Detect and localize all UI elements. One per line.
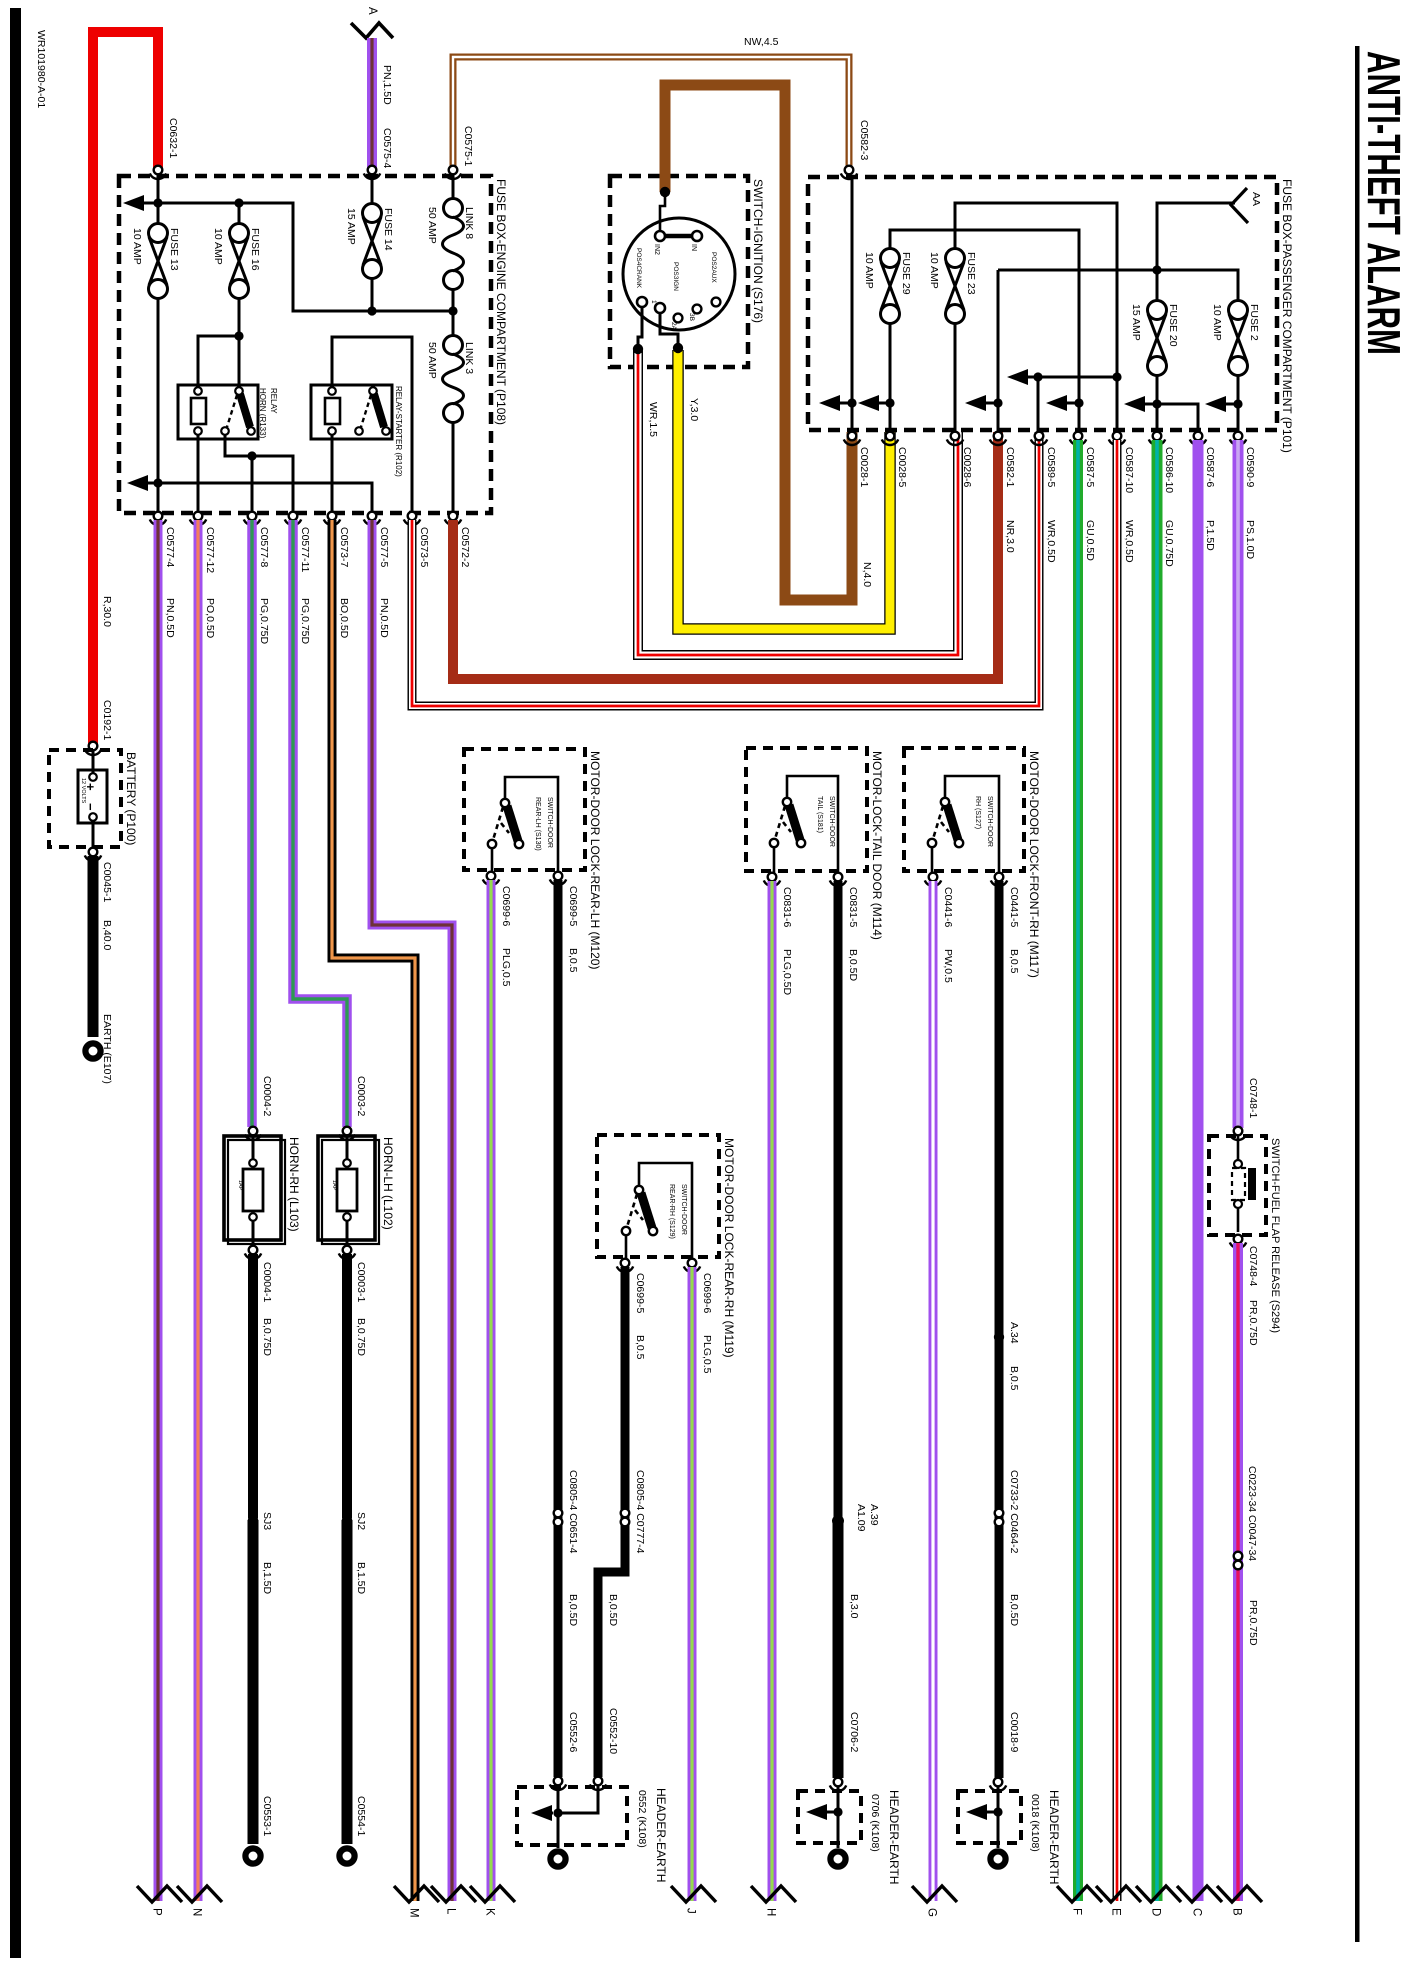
svg-text:C0572-2: C0572-2 [459,527,471,567]
svg-text:POS4CRANK: POS4CRANK [635,248,642,289]
fuse F16 10AMP [230,224,249,299]
wire B,0.75D HORN-RH (L103) [248,1254,258,1518]
svg-text:B,0.75D: B,0.75D [355,1318,367,1356]
svg-text:10 AMP: 10 AMP [863,252,875,289]
P101 row377 bus [1028,377,1117,432]
svg-text:GU,0.75D: GU,0.75D [1163,520,1175,567]
svg-text:C0831-6: C0831-6 [781,887,793,927]
wire PS,1.0D C0590-9 to fuel flap switch [1233,440,1244,1128]
connector C0577-8 [244,512,260,525]
junction fuse16 bottom [234,331,243,340]
M114 internal wire [787,776,838,873]
svg-text:C0003-2: C0003-2 [355,1076,367,1116]
junction 0552 [553,1808,562,1817]
connector C0573-7 [324,512,340,525]
wire PLG,0.5D M114 to H [768,881,777,1901]
svg-text:3B: 3B [688,313,695,321]
svg-text:0018 (K108): 0018 (K108) [1029,1794,1041,1852]
connector C0706-2 [830,1778,846,1791]
svg-text:C0223-34 C0047-34: C0223-34 C0047-34 [1246,1466,1258,1561]
horn HORN-RH (L103) element [243,1169,263,1211]
wire PN,0.5D C0577-4 to P [154,520,163,1901]
svg-text:C0577-4: C0577-4 [164,527,176,567]
junction c [993,398,1002,407]
svg-text:HORN-LH (L102): HORN-LH (L102) [381,1137,395,1230]
connector C0587-6 [1190,432,1206,445]
svg-text:12 VOLTS: 12 VOLTS [80,778,86,804]
junction 0018 [993,1807,1002,1816]
connector C0003-2 [339,1127,355,1140]
svg-text:C0699-5: C0699-5 [634,1273,646,1313]
connector C0003-1 [339,1246,355,1259]
fusible link LINK 3 50AMP [443,336,464,423]
connectors C0733-2 C0464-2 [995,1509,1004,1527]
junction fuse16 feed [234,198,243,207]
svg-text:FUSE 13: FUSE 13 [168,228,180,271]
svg-text:MOTOR-DOOR LOCK-REAR-RH (M119): MOTOR-DOOR LOCK-REAR-RH (M119) [722,1138,736,1358]
svg-text:C0706-2: C0706-2 [848,1712,860,1752]
svg-text:C0699-5: C0699-5 [567,886,579,926]
svg-text:M: M [408,1908,420,1918]
wire PG,0.75D C0577-8 to horn RH [247,520,257,1127]
fuel flap switch box S294 [1209,1136,1266,1235]
connectors C0223-34 C0047-34 [1234,1552,1243,1570]
connector C0573-5 [404,512,420,525]
wire B,1.5D HORN-RH (L103) [248,1520,259,1844]
svg-text:PN,0.5D: PN,0.5D [378,598,390,638]
svg-text:B,0.5D: B,0.5D [847,949,859,982]
svg-text:C0554-1: C0554-1 [355,1796,367,1836]
junction AA bus [1152,265,1161,274]
P101 arrow f [1205,396,1226,412]
svg-text:P: P [151,1908,163,1916]
svg-text:MOTOR-DOOR LOCK-FRONT-RH (M117: MOTOR-DOOR LOCK-FRONT-RH (M117) [1027,751,1041,978]
svg-text:H: H [765,1908,777,1916]
ignition switch body circle [623,218,735,330]
wire ignition pin1 to Y stub [660,313,678,347]
header earth 0552 arrow [531,1805,552,1821]
svg-text:FUSE 14: FUSE 14 [382,208,394,251]
wire PN,0.5D C0577-5 to L [372,520,452,1901]
connector G [912,1886,957,1902]
svg-text:POS2AUX: POS2AUX [710,252,717,283]
fusible link LINK 8 50AMP [443,199,464,290]
svg-text:C0003-1: C0003-1 [355,1262,367,1302]
svg-text:B,0.5: B,0.5 [1008,949,1020,974]
junction row377 a [1033,372,1042,381]
svg-text:POS3IGN: POS3IGN [672,262,679,291]
svg-text:FUSE BOX-PASSENGER COMPARTMENT: FUSE BOX-PASSENGER COMPARTMENT (P101) [1280,179,1294,453]
wire fuse16 vertical [238,203,241,336]
wire link8 vertical [452,174,455,311]
svg-text:C0553-1: C0553-1 [261,1796,273,1836]
svg-text:SJ2: SJ2 [355,1512,367,1530]
connector E [1096,1886,1141,1902]
svg-text:B,0.5D: B,0.5D [567,1594,579,1627]
header earth 0706 K108 box [798,1791,861,1843]
connector C0045-1 [85,848,101,861]
header earth 0018 K108 box [958,1791,1021,1843]
svg-text:50 AMP: 50 AMP [426,342,438,379]
svg-text:SWITCH-DOOR: SWITCH-DOOR [986,796,993,847]
svg-text:PR,0.75D: PR,0.75D [1247,1300,1259,1346]
svg-text:C0748-4: C0748-4 [1247,1246,1259,1286]
junction a [847,398,856,407]
svg-text:FUSE 29: FUSE 29 [900,252,912,295]
svg-text:C0587-10: C0587-10 [1123,447,1135,493]
svg-text:−: − [83,803,98,811]
svg-text:PLG,0.5: PLG,0.5 [500,948,512,987]
connectors C0805-4 C0777-4 [621,1509,630,1527]
wire fuse20 verticals [1156,375,1159,432]
svg-text:C0577-12: C0577-12 [204,527,216,573]
earth ring 0706 [830,1851,845,1866]
P101 bus row 270 [998,270,1238,432]
connector C0004-1 [245,1246,261,1259]
svg-text:1AP: 1AP [237,1180,243,1191]
P108 internal bus top [144,203,453,311]
svg-text:G: G [926,1908,938,1917]
M117 internal wire [945,776,999,873]
fuse box P108 [119,176,491,513]
svg-text:HEADER-EARTH: HEADER-EARTH [1047,1790,1061,1884]
wire PLG,0.5 M120 to K [487,880,496,1901]
horn HORN-LH (L102) element [337,1169,357,1211]
svg-text:C0632-1: C0632-1 [167,118,179,158]
svg-text:FUSE 2: FUSE 2 [1248,304,1260,341]
wire battery feed R,30.0 red [93,32,158,747]
earth ring 0018 [990,1851,1005,1866]
P101 arrow c [965,395,986,411]
svg-text:B,0.5D: B,0.5D [1008,1594,1020,1627]
wire fuse29 verticals [890,230,1079,432]
junction e [1152,399,1161,408]
connector L [431,1886,476,1902]
wire NR,3.0 C0572-2 to C0582-1 [453,432,998,679]
svg-text:REAR-RH (S129): REAR-RH (S129) [668,1184,675,1239]
svg-text:SWITCH-DOOR: SWITCH-DOOR [680,1184,687,1235]
connector K [470,1886,515,1902]
connector C0577-5 [364,512,380,525]
connector H [751,1886,796,1902]
svg-text:FUSE 16: FUSE 16 [249,228,261,271]
fuse F23 10AMP [946,249,965,324]
wire PN,1.5D from connector A [367,38,377,170]
svg-text:C0552-10: C0552-10 [607,1708,619,1754]
svg-text:PN,1.5D: PN,1.5D [381,65,393,105]
switch S127 door RH [928,798,963,847]
svg-text:E: E [1110,1908,1122,1916]
ignition pin 1 [655,303,665,313]
svg-text:P,1.5D: P,1.5D [1204,520,1216,551]
svg-text:PW,0.5: PW,0.5 [942,949,954,983]
P101 arrow d [1046,395,1067,411]
motor M114 box [746,748,867,871]
junction row377 b [1112,372,1121,381]
svg-text:C0575-1: C0575-1 [462,126,474,166]
wire ignition feed stub from brown [660,194,665,230]
wire WR,0.5D C0573-5 to C0589-5 [412,432,1039,706]
junction d [1074,398,1083,407]
svg-text:C0004-2: C0004-2 [261,1076,273,1116]
ignition pin 2A [674,314,683,323]
svg-text:SWITCH-IGNITION (S176): SWITCH-IGNITION (S176) [751,179,765,323]
junction b [885,398,894,407]
svg-text:WR101980-A-01: WR101980-A-01 [35,30,47,108]
svg-text:PR,0.75D: PR,0.75D [1247,1600,1259,1646]
svg-text:A: A [366,7,378,15]
wire fuse14 vertical [371,174,374,311]
svg-text:RELAY-STARTER (R102): RELAY-STARTER (R102) [394,386,403,477]
svg-text:FUSE 20: FUSE 20 [1167,304,1179,347]
svg-text:SWITCH-DOOR: SWITCH-DOOR [828,796,835,847]
svg-text:50 AMP: 50 AMP [426,207,438,244]
wire B,0.5 M119 to C0552-10 [598,1267,625,1777]
connector C0587-10 [1109,432,1125,445]
connector C0004-2 [245,1127,261,1140]
wire PR,0.75D fuel flap to B [1233,1243,1243,1901]
svg-text:B,40.0: B,40.0 [101,920,113,951]
wire B,0.5 M120 to C0552-6 [554,880,563,1777]
connector A chevron [351,23,393,38]
connector C0575-4 [364,166,380,179]
relay R133 coil [191,398,206,424]
page edge bar left [10,8,21,1958]
earth ring 0552 [550,1851,565,1866]
svg-text:PG,0.75D: PG,0.75D [258,598,270,645]
wire Y,3.0 yellow ignition to C0028-5 [678,350,890,629]
connector C0572-2 [445,512,461,525]
connector N [177,1886,222,1902]
junction bottom bus [153,478,162,487]
svg-text:MOTOR-DOOR LOCK-REAR-LH (M120): MOTOR-DOOR LOCK-REAR-LH (M120) [588,751,602,969]
connector C0590-9 [1230,432,1246,445]
header earth 0706 internal [837,1786,840,1848]
svg-text:ANTI-THEFT ALARM: ANTI-THEFT ALARM [1358,51,1406,355]
svg-text:F: F [1071,1908,1083,1915]
ring terminal C0553-1 [245,1848,260,1863]
ignition switch box S176 [610,176,748,367]
svg-text:C0590-9: C0590-9 [1244,447,1256,487]
connector C0699-5 M119 [617,1259,633,1272]
M119 internal wire [639,1163,692,1259]
P101 bus from AA [1157,203,1235,301]
svg-text:B,0.5: B,0.5 [1008,1366,1020,1391]
svg-text:A.39: A.39 [868,1504,880,1526]
svg-text:C0004-1: C0004-1 [261,1262,273,1302]
svg-text:IN: IN [690,244,697,251]
wire R102 coil feed from C0573-5 [332,337,412,512]
svg-text:C0028-1: C0028-1 [858,447,870,487]
svg-text:C0831-5: C0831-5 [847,887,859,927]
svg-text:SJ3: SJ3 [261,1512,273,1530]
connector C0028-1 [844,432,860,445]
connector C0699-5 M120 [550,872,566,885]
P108 bottom-left arrow [127,475,148,491]
fuel flap switch internals [1237,1136,1240,1232]
svg-text:PS,1.0D: PS,1.0D [1244,520,1256,560]
connector C0552-6 [550,1777,566,1790]
splice SJ2 [342,1515,352,1525]
svg-text:WR,0.5D: WR,0.5D [1123,520,1135,563]
ignition pin 3B [693,305,702,314]
connector C0441-6 [925,873,941,886]
svg-text:K: K [484,1908,496,1916]
svg-text:C0699-6: C0699-6 [701,1273,713,1313]
svg-text:BO,0.5D: BO,0.5D [338,598,350,639]
fuse F29 10AMP [881,249,900,324]
connector C0552-10 [590,1777,606,1790]
wire fuse2 verticals [1237,375,1240,432]
wire NW,4.5 brown/white [453,57,849,170]
junction red feed [153,198,162,207]
svg-text:SWITCH-FUEL FLAP RELEASE (S294: SWITCH-FUEL FLAP RELEASE (S294) [1269,1138,1281,1333]
connector C0586-10 [1149,432,1165,445]
connector D [1136,1886,1181,1902]
wire WR,1.5 ignition to C0028-6 [638,350,958,655]
svg-text:D: D [1150,1908,1162,1916]
svg-text:C0748-1: C0748-1 [1247,1078,1259,1118]
junction ignition yellow terminal [673,343,683,353]
svg-text:C0441-6: C0441-6 [942,887,954,927]
svg-text:C0573-5: C0573-5 [418,527,430,567]
svg-text:HEADER-EARTH: HEADER-EARTH [654,1788,668,1882]
svg-text:C0045-1: C0045-1 [101,862,113,902]
connector C0699-6 M119 [684,1259,700,1272]
svg-text:LINK 8: LINK 8 [463,207,475,239]
wire R133 coil bottom to C0577-12 [197,435,200,512]
svg-text:C0733-2 C0464-2: C0733-2 C0464-2 [1008,1470,1020,1554]
svg-text:GU,0.5D: GU,0.5D [1084,520,1096,561]
wire B,0.5D M114 upper [834,881,843,1521]
svg-text:C0577-8: C0577-8 [258,527,270,567]
svg-text:C0699-6: C0699-6 [500,886,512,926]
svg-text:B,3.0: B,3.0 [848,1594,860,1619]
svg-text:B: B [1231,1908,1243,1916]
connector C0028-5 [882,432,898,445]
svg-text:AA: AA [1250,192,1262,206]
relay R133 horn relay box [178,385,258,439]
svg-text:1AP: 1AP [331,1180,337,1191]
P101 arrow row377 [1007,369,1028,385]
motor M117 box [904,748,1024,871]
switch S181 tail door [770,798,805,847]
svg-text:C0573-7: C0573-7 [338,527,350,567]
svg-text:10 AMP: 10 AMP [212,228,224,265]
wire BO,0.5D C0573-7 to M [332,520,415,1901]
motor M119 box [597,1135,719,1257]
svg-text:LINK 3: LINK 3 [463,342,475,374]
svg-text:C0805-4 C0651-4: C0805-4 C0651-4 [567,1470,579,1554]
junction horn feed [247,451,256,460]
connector F [1057,1886,1102,1902]
svg-text:10 AMP: 10 AMP [131,228,143,265]
svg-text:B,0.5: B,0.5 [634,1335,646,1360]
svg-text:10 AMP: 10 AMP [1211,304,1223,341]
connector C0192-1 [85,742,101,755]
wire B,1.5D HORN-LH (L102) [342,1520,353,1844]
P108 top-left arrow [123,195,144,211]
M120 internal wire [505,777,558,872]
wire PW,0.5 M117 to G [929,881,938,1901]
junction 0706 [833,1807,842,1816]
svg-text:REAR-LH (S130): REAR-LH (S130) [534,797,541,851]
switch S129 door rear-RH [622,1186,657,1235]
svg-text:FUSE 23: FUSE 23 [965,252,977,295]
connectors C0805-4 C0651-4 [554,1509,563,1527]
svg-text:HORN-RH (L103): HORN-RH (L103) [287,1137,301,1232]
fuse box P101 [808,177,1277,430]
ring terminal C0554-1 [339,1848,354,1863]
connector B [1217,1886,1262,1902]
wire PLG,0.5 M119 to J [688,1267,697,1901]
connector C0748-4 [1230,1235,1246,1248]
connector C0577-12 [190,512,206,525]
junction f [1233,399,1242,408]
svg-text:B,0.75D: B,0.75D [261,1318,273,1356]
svg-text:C0552-6: C0552-6 [567,1712,579,1752]
relay R102 contacts [374,394,384,427]
svg-text:C0586-10: C0586-10 [1163,447,1175,493]
junction fuse14/link8 [367,306,376,315]
svg-text:C: C [1191,1908,1203,1916]
svg-text:C0589-5: C0589-5 [1045,447,1057,487]
connector J [671,1886,716,1902]
header earth 0552 K108 box [517,1787,627,1845]
svg-text:A1.09: A1.09 [855,1504,867,1532]
connector M [394,1886,439,1902]
junction ignition brown terminal [660,187,670,197]
svg-text:B,0.5D: B,0.5D [607,1594,619,1627]
svg-text:Y,3.0: Y,3.0 [688,398,700,421]
svg-text:C0028-5: C0028-5 [896,447,908,487]
svg-text:R,30.0: R,30.0 [101,596,113,627]
svg-text:HEADER-EARTH: HEADER-EARTH [887,1790,901,1884]
splice A.34 [994,1332,1004,1342]
horn HORN-RH (L103) box [228,1140,285,1244]
wire B,0.5 M117 upper [995,881,1004,1778]
svg-text:15 AMP: 15 AMP [1130,304,1142,341]
svg-text:NR,3.0: NR,3.0 [1004,520,1016,553]
header earth 0018 arrow [966,1804,987,1820]
svg-text:C0582-1: C0582-1 [1004,447,1016,487]
wire fuse16 to relay R133 [198,336,239,387]
svg-text:A.34: A.34 [1008,1322,1020,1344]
ignition pin POS4CRANK [637,297,647,307]
connector C0018-9 [990,1778,1006,1791]
wire R133 contact to C0577-8 and C0577-11 [225,435,293,512]
P101 arrow b [858,395,879,411]
svg-text:HORN (R133): HORN (R133) [258,388,267,439]
svg-text:RH (S127): RH (S127) [974,796,981,829]
connector C0699-6 M120 [483,872,499,885]
wire P,1.5D C0587-6 to C [1193,440,1204,1901]
wire WR,0.5D C0587-10 to E [1113,440,1122,1901]
svg-text:C0582-3: C0582-3 [858,120,870,160]
wire R102 coil bottom to C0573-7 [331,435,334,512]
wire fuse13 vertical [157,174,160,512]
fuse F2 10AMP [1229,301,1248,376]
connector C0748-1 [1230,1127,1246,1140]
connector C0577-4 [150,512,166,525]
svg-text:B,1.5D: B,1.5D [355,1562,367,1595]
svg-text:IN2: IN2 [653,244,660,255]
connector AA chevron [1231,188,1248,223]
svg-text:C0575-4: C0575-4 [381,128,393,168]
relay R102 coil [325,398,340,424]
fuse F13 10AMP [149,224,168,299]
svg-text:PLG,0.5D: PLG,0.5D [781,949,793,996]
